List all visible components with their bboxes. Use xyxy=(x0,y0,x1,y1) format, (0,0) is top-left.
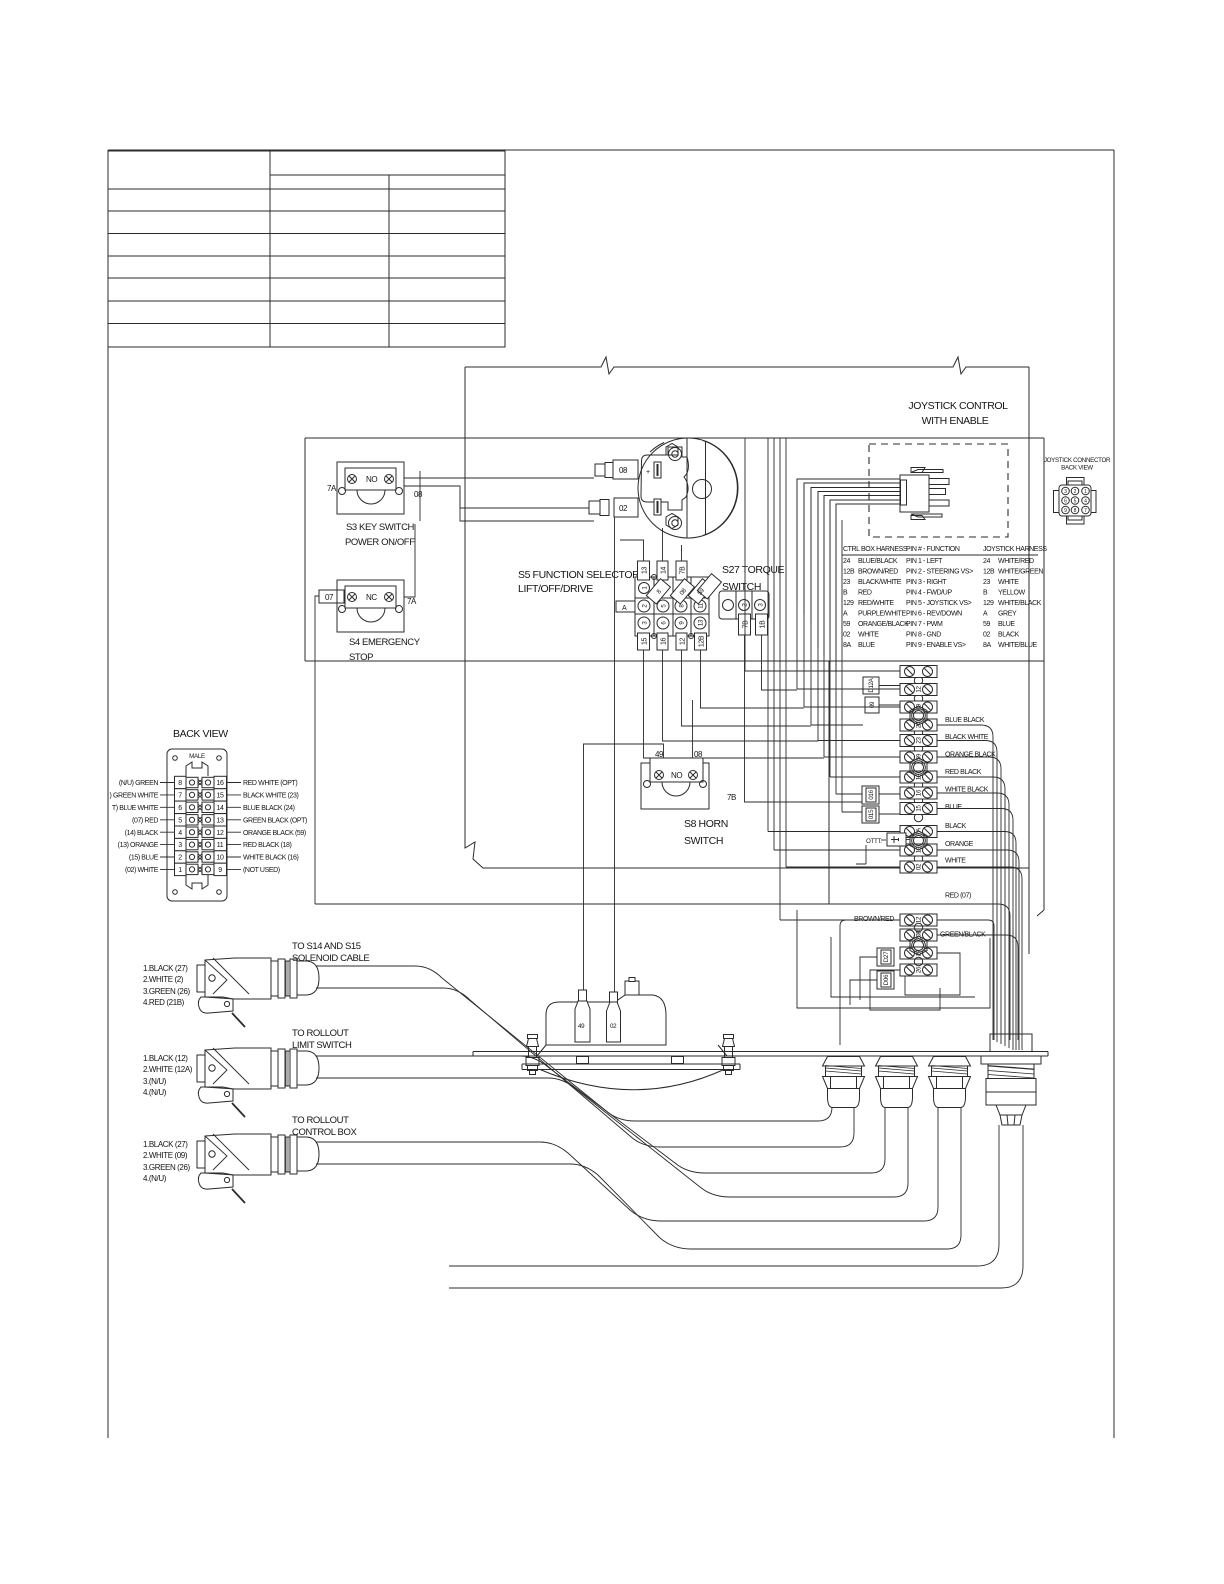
svg-text:8: 8 xyxy=(178,780,182,787)
svg-text:WHITE/GREEN: WHITE/GREEN xyxy=(998,569,1043,576)
wire spade 02 left xyxy=(460,490,589,508)
svg-text:S27 TORQUE: S27 TORQUE xyxy=(722,564,785,576)
svg-text:4: 4 xyxy=(1084,499,1087,505)
top tabs 13 14 7B xyxy=(638,561,688,580)
tag D27 xyxy=(877,948,894,966)
stack 2 wires and enclosure xyxy=(797,910,990,1045)
svg-text:6: 6 xyxy=(178,805,182,812)
svg-text:WHITE BLACK: WHITE BLACK xyxy=(945,787,989,794)
svg-text:NC: NC xyxy=(366,593,377,602)
svg-text:A: A xyxy=(983,611,988,618)
svg-text:WHITE/RED: WHITE/RED xyxy=(998,558,1034,565)
svg-text:BLUE: BLUE xyxy=(945,804,962,811)
svg-text:2: 2 xyxy=(178,855,182,862)
svg-text:(07) RED: (07) RED xyxy=(132,817,158,824)
svg-text:ORANGE: ORANGE xyxy=(945,841,974,848)
svg-text:16: 16 xyxy=(661,638,668,645)
svg-text:RED: RED xyxy=(858,590,872,597)
svg-text:08: 08 xyxy=(619,466,628,475)
svg-text:7A: 7A xyxy=(327,484,337,493)
S27 wires xyxy=(745,635,863,802)
svg-text:T) BLUE WHITE: T) BLUE WHITE xyxy=(112,805,159,812)
svg-text:7A: 7A xyxy=(407,597,417,606)
svg-text:14: 14 xyxy=(661,567,668,574)
svg-text:59: 59 xyxy=(983,621,990,628)
svg-text:23: 23 xyxy=(916,737,923,744)
svg-text:S4 EMERGENCY: S4 EMERGENCY xyxy=(349,637,421,648)
svg-text:) GREEN WHITE: ) GREEN WHITE xyxy=(110,793,159,800)
svg-text:1.BLACK (27): 1.BLACK (27) xyxy=(143,1140,188,1149)
svg-text:BLUE/BLACK: BLUE/BLACK xyxy=(858,558,898,565)
svg-text:POWER ON/OFF: POWER ON/OFF xyxy=(345,537,415,548)
svg-text:WHITE/BLUE: WHITE/BLUE xyxy=(998,642,1038,649)
joystick connector (in dashed box) xyxy=(900,468,949,520)
svg-text:NO: NO xyxy=(671,771,682,780)
svg-text:1: 1 xyxy=(178,867,182,874)
svg-text:7B: 7B xyxy=(743,620,750,628)
svg-text:PIN 5 - JOYSTICK VS>: PIN 5 - JOYSTICK VS> xyxy=(906,600,972,607)
svg-text:STOP: STOP xyxy=(349,652,373,663)
svg-text:GREEN BLACK (OPT): GREEN BLACK (OPT) xyxy=(243,817,307,824)
svg-text:13: 13 xyxy=(698,619,705,626)
S3 key switch xyxy=(327,462,423,514)
back view pin rows xyxy=(110,776,308,875)
svg-text:10: 10 xyxy=(217,855,224,862)
svg-text:RED/WHITE: RED/WHITE xyxy=(858,600,894,607)
svg-text:BROWN/RED: BROWN/RED xyxy=(854,916,894,923)
svg-text:S8 HORN: S8 HORN xyxy=(684,818,728,830)
S27 torque switch block xyxy=(719,591,769,635)
svg-text:MALE: MALE xyxy=(189,753,205,760)
svg-text:7: 7 xyxy=(1084,508,1087,514)
svg-text:WHITE: WHITE xyxy=(945,858,966,865)
A tag xyxy=(616,601,635,612)
S8 wires 49 and 08 xyxy=(584,517,693,999)
svg-text:RED (07): RED (07) xyxy=(945,893,971,900)
svg-text:15: 15 xyxy=(642,638,649,645)
svg-text:5: 5 xyxy=(1074,499,1077,505)
svg-text:24: 24 xyxy=(983,558,990,565)
outer drawing border xyxy=(108,150,1114,1438)
svg-text:PIN 2 - STEERING VS>: PIN 2 - STEERING VS> xyxy=(906,569,973,576)
svg-text:RED BLACK (18): RED BLACK (18) xyxy=(243,842,292,849)
svg-text:(N/U) GREEN: (N/U) GREEN xyxy=(119,780,159,787)
wire S4 right to S3 xyxy=(404,524,415,597)
tag D06 xyxy=(877,971,894,989)
svg-text:129: 129 xyxy=(983,600,994,607)
svg-text:129: 129 xyxy=(843,600,854,607)
svg-text:BLACK: BLACK xyxy=(945,823,967,830)
control box outline (box B) xyxy=(305,438,1044,916)
svg-text:BLUE BLACK: BLUE BLACK xyxy=(945,717,985,724)
svg-text:D06: D06 xyxy=(883,974,890,985)
svg-text:(NOT USED): (NOT USED) xyxy=(243,867,280,874)
svg-text:2.WHITE (12A): 2.WHITE (12A) xyxy=(143,1065,193,1074)
svg-text:12: 12 xyxy=(916,916,923,923)
svg-text:16: 16 xyxy=(217,780,224,787)
svg-text:24: 24 xyxy=(843,558,850,565)
inner enclosure with break marks (box A) xyxy=(465,357,1029,954)
svg-text:GREY: GREY xyxy=(998,611,1017,618)
svg-text:016: 016 xyxy=(868,789,875,799)
svg-text:PIN 7 - PWM: PIN 7 - PWM xyxy=(906,621,943,628)
svg-text:WITH ENABLE: WITH ENABLE xyxy=(922,415,989,427)
svg-text:PIN 6 - REV/DOWN: PIN 6 - REV/DOWN xyxy=(906,611,962,618)
svg-text:PIN 9 - ENABLE VS>: PIN 9 - ENABLE VS> xyxy=(906,642,966,649)
svg-text:2.WHITE (2): 2.WHITE (2) xyxy=(143,975,184,984)
strain relief gland xyxy=(981,1034,1041,1125)
cable connector: to rollout limit switch xyxy=(197,1048,319,1117)
svg-text:12: 12 xyxy=(217,830,224,837)
svg-text:NO: NO xyxy=(366,475,377,484)
svg-text:4: 4 xyxy=(178,830,182,837)
svg-text:13: 13 xyxy=(642,567,649,574)
svg-text:6: 6 xyxy=(1064,499,1067,505)
svg-text:BACK VIEW: BACK VIEW xyxy=(173,728,228,740)
svg-text:WHITE: WHITE xyxy=(858,632,879,639)
svg-text:YELLOW: YELLOW xyxy=(998,590,1026,597)
svg-text:BLACK/WHITE: BLACK/WHITE xyxy=(858,579,902,586)
svg-text:02: 02 xyxy=(916,863,923,870)
svg-text:4.(N/U): 4.(N/U) xyxy=(143,1174,167,1183)
svg-text:LIFT/OFF/DRIVE: LIFT/OFF/DRIVE xyxy=(518,583,593,595)
S4 emergency stop xyxy=(319,580,417,632)
terminal strip stack 2 xyxy=(900,914,937,976)
bottom tabs 15 16 12 12B xyxy=(638,633,707,650)
svg-text:SOLENOID CABLE: SOLENOID CABLE xyxy=(292,953,369,964)
svg-text:BROWN/RED: BROWN/RED xyxy=(858,569,898,576)
svg-text:RED WHITE (OPT): RED WHITE (OPT) xyxy=(243,780,297,787)
svg-text:SWITCH: SWITCH xyxy=(684,835,723,847)
svg-text:2: 2 xyxy=(1074,489,1077,495)
svg-text:7: 7 xyxy=(178,793,182,800)
svg-text:11: 11 xyxy=(217,842,224,849)
junction dots xyxy=(652,575,657,580)
svg-text:1.BLACK (27): 1.BLACK (27) xyxy=(143,964,188,973)
svg-text:8A: 8A xyxy=(983,642,991,649)
svg-text:+: + xyxy=(646,469,650,476)
svg-text:PIN 3 - RIGHT: PIN 3 - RIGHT xyxy=(906,579,947,586)
wire colour labels stack 1 xyxy=(945,717,996,900)
S8 horn switch xyxy=(641,750,709,809)
battery tag with OTTT label xyxy=(856,833,910,864)
svg-text:12: 12 xyxy=(680,638,687,645)
pin function table xyxy=(842,546,1047,649)
svg-text:8: 8 xyxy=(1074,508,1077,514)
svg-text:OTTT.: OTTT. xyxy=(866,838,882,845)
svg-text:PIN 8 - GND: PIN 8 - GND xyxy=(906,632,941,639)
svg-text:9: 9 xyxy=(218,867,222,874)
svg-text:3: 3 xyxy=(1064,489,1067,495)
tag 09 xyxy=(865,697,879,713)
title block table (empty) xyxy=(108,151,505,347)
tag 016 xyxy=(862,786,879,804)
svg-text:3.GREEN (26): 3.GREEN (26) xyxy=(143,1163,191,1172)
svg-text:B: B xyxy=(843,590,848,597)
svg-text:ORANGE BLACK (59): ORANGE BLACK (59) xyxy=(243,830,306,837)
svg-text:TO S14 AND S15: TO S14 AND S15 xyxy=(292,941,361,952)
svg-text:(13) ORANGE: (13) ORANGE xyxy=(118,842,159,849)
svg-text:BLACK WHITE (23): BLACK WHITE (23) xyxy=(243,793,299,800)
S5 tab wires down to stack xyxy=(620,528,824,758)
svg-text:RED BLACK: RED BLACK xyxy=(945,769,982,776)
terminal strip stack 1 xyxy=(900,666,937,874)
svg-text:5: 5 xyxy=(178,817,182,824)
svg-text:12B: 12B xyxy=(983,569,995,576)
svg-text:12: 12 xyxy=(916,686,923,693)
tag D12A xyxy=(863,677,879,694)
svg-text:13: 13 xyxy=(217,817,224,824)
svg-text:59: 59 xyxy=(843,621,850,628)
tilted jumper tags xyxy=(646,574,721,604)
svg-text:02: 02 xyxy=(619,504,628,513)
svg-text:BLUE: BLUE xyxy=(998,621,1015,628)
svg-text:3.(N/U): 3.(N/U) xyxy=(143,1077,167,1086)
horn body xyxy=(522,978,740,1090)
svg-text:A: A xyxy=(622,605,627,612)
svg-text:BLACK: BLACK xyxy=(998,632,1020,639)
svg-text:08: 08 xyxy=(414,490,423,499)
svg-text:D27: D27 xyxy=(883,951,890,962)
svg-text:TO ROLLOUT: TO ROLLOUT xyxy=(292,1115,349,1126)
svg-text:7B: 7B xyxy=(680,566,687,574)
control cable to hydraulic valve xyxy=(449,1125,1023,1288)
svg-text:02: 02 xyxy=(843,632,850,639)
svg-text:BLACK WHITE: BLACK WHITE xyxy=(945,734,989,741)
svg-text:CONTROL BOX: CONTROL BOX xyxy=(292,1127,357,1138)
wires to joystick connector xyxy=(797,479,900,672)
svg-text:4.(N/U): 4.(N/U) xyxy=(143,1088,167,1097)
svg-text:LIMIT SWITCH: LIMIT SWITCH xyxy=(292,1040,352,1051)
svg-text:15: 15 xyxy=(916,805,923,812)
svg-text:CTRL BOX HARNESS: CTRL BOX HARNESS xyxy=(843,546,908,553)
wire S3 to ignition spade 08 xyxy=(404,471,594,521)
svg-text:3.GREEN (26): 3.GREEN (26) xyxy=(143,987,191,996)
svg-text:1.BLACK (12): 1.BLACK (12) xyxy=(143,1054,188,1063)
svg-text:WHITE BLACK (16): WHITE BLACK (16) xyxy=(243,855,299,862)
svg-text:PIN 1 - LEFT: PIN 1 - LEFT xyxy=(906,558,943,565)
svg-text:1: 1 xyxy=(1084,489,1087,495)
S5 terminal block xyxy=(616,561,721,650)
svg-text:015: 015 xyxy=(868,809,875,819)
cable connector: to S14/S15 solenoid cable xyxy=(197,958,319,1027)
joystick connector back view xyxy=(1044,457,1111,524)
svg-text:26: 26 xyxy=(916,966,923,973)
svg-text:8A: 8A xyxy=(843,642,851,649)
svg-text:S5 FUNCTION SELECTOR: S5 FUNCTION SELECTOR xyxy=(518,569,640,581)
cable connector: to rollout control box xyxy=(197,1134,319,1203)
svg-text:JOYSTICK CONNECTOR: JOYSTICK CONNECTOR xyxy=(1044,457,1111,464)
cable glands xyxy=(823,1057,865,1108)
joystick control area dashed box xyxy=(869,444,1008,537)
wire bundle verticals (top to stacks) xyxy=(745,438,900,920)
svg-text:B: B xyxy=(983,590,988,597)
svg-text:4.RED (21B): 4.RED (21B) xyxy=(143,998,185,1007)
tag 015 xyxy=(862,806,879,823)
svg-text:TO ROLLOUT: TO ROLLOUT xyxy=(292,1028,349,1039)
svg-text:JOYSTICK HARNESS: JOYSTICK HARNESS xyxy=(983,546,1047,553)
svg-text:49: 49 xyxy=(578,1023,585,1030)
svg-text:BLUE BLACK (24): BLUE BLACK (24) xyxy=(243,805,295,812)
back view 16-pin connector xyxy=(167,749,227,901)
svg-text:PURPLE/WHITE: PURPLE/WHITE xyxy=(858,611,906,618)
svg-text:1B: 1B xyxy=(760,620,767,628)
svg-text:(15) BLUE: (15) BLUE xyxy=(129,855,159,862)
svg-text:3: 3 xyxy=(178,842,182,849)
svg-text:(14) BLACK: (14) BLACK xyxy=(125,830,159,837)
svg-text:7B: 7B xyxy=(727,793,736,802)
svg-text:A: A xyxy=(843,611,848,618)
svg-text:02: 02 xyxy=(610,1023,617,1030)
svg-text:PIN # - FUNCTION: PIN # - FUNCTION xyxy=(906,546,960,553)
svg-text:07: 07 xyxy=(325,593,334,602)
wire S4 07 box down-left xyxy=(315,596,319,904)
svg-text:S3 KEY SWITCH: S3 KEY SWITCH xyxy=(346,522,415,533)
key switch back view (ignition) xyxy=(638,438,738,538)
horn mounting bolts xyxy=(526,1035,539,1075)
spade terminal 02 xyxy=(589,498,638,517)
svg-text:16: 16 xyxy=(916,789,923,796)
svg-text:12B: 12B xyxy=(699,635,706,647)
svg-text:23: 23 xyxy=(843,579,850,586)
spade terminal 08 xyxy=(595,460,638,479)
svg-text:15: 15 xyxy=(217,793,224,800)
svg-text:12B: 12B xyxy=(843,569,855,576)
svg-text:ORANGE/BLACK: ORANGE/BLACK xyxy=(858,621,909,628)
svg-text:2.WHITE (09): 2.WHITE (09) xyxy=(143,1151,188,1160)
solenoid / rollout cables sweeping right xyxy=(316,966,961,1249)
svg-text:9: 9 xyxy=(1064,508,1067,514)
svg-text:PIN 4 - FWD/UP: PIN 4 - FWD/UP xyxy=(906,590,952,597)
svg-text:(02) WHITE: (02) WHITE xyxy=(125,867,159,874)
svg-text:BACK VIEW: BACK VIEW xyxy=(1061,465,1093,472)
svg-text:D12A: D12A xyxy=(868,677,875,692)
svg-text:23: 23 xyxy=(983,579,990,586)
right side wires curving into strain relief bundle xyxy=(315,725,1022,1050)
svg-text:BLUE: BLUE xyxy=(858,642,875,649)
svg-text:WHITE/BLACK: WHITE/BLACK xyxy=(998,600,1042,607)
svg-text:02: 02 xyxy=(983,632,990,639)
svg-text:14: 14 xyxy=(217,805,224,812)
svg-text:JOYSTICK CONTROL: JOYSTICK CONTROL xyxy=(908,400,1008,412)
terminal screws with numbers xyxy=(638,583,706,630)
svg-text:WHITE: WHITE xyxy=(998,579,1019,586)
mounting plate xyxy=(473,1052,1048,1057)
